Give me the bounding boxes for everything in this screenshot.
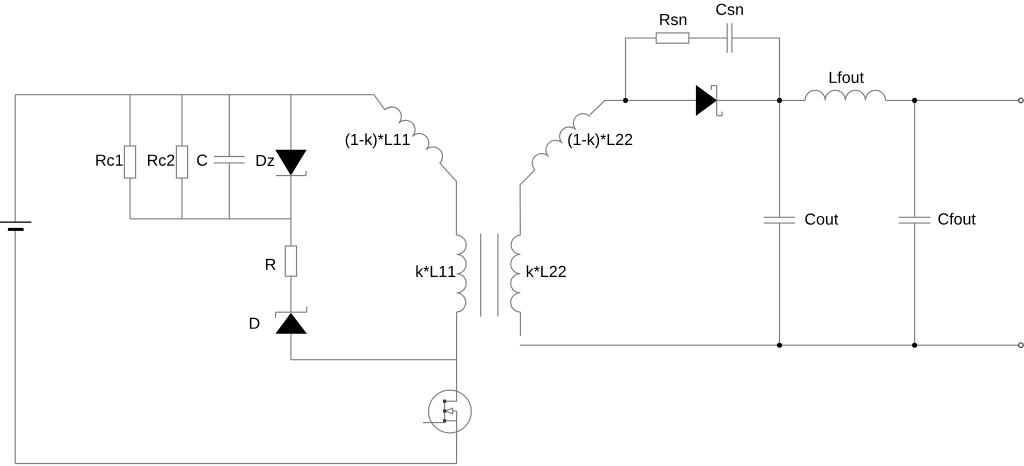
label Rc2 (148, 155, 174, 166)
wire top bus jog to primary winding (374, 95, 385, 110)
wire diode to node B (717, 99, 780, 101)
wire left rail upper (14, 95, 16, 222)
label Rc1 (96, 155, 122, 166)
wire secondary bottom tail (519, 312, 521, 336)
resistor Rsn (656, 33, 689, 43)
wire winding to node (590, 100, 626, 115)
node at Cfout bottom (912, 343, 917, 348)
mosfet Q1 gate stub (423, 422, 445, 424)
mosfet Q1 circle (429, 390, 472, 433)
label k*L22 (527, 265, 566, 277)
capacitor Cfout (899, 217, 931, 223)
label Cout (805, 213, 838, 224)
wire Dz top lead (290, 95, 292, 150)
node at Cout bottom (777, 343, 782, 348)
label Dz (257, 155, 275, 166)
wire top-left bus (15, 94, 374, 96)
label k*L11 (416, 265, 455, 277)
wire Cout bottom (779, 223, 781, 345)
label Csn (716, 4, 743, 15)
wire Rc1 top lead (129, 95, 131, 146)
wire Lfout to terminal (886, 99, 1019, 101)
terminal output minus (1019, 343, 1024, 348)
wire node to diode (626, 99, 696, 101)
wire D to drain (291, 334, 457, 360)
wire C top lead (228, 95, 230, 157)
wire Rc1 bottom lead (129, 178, 131, 219)
mosfet Q1 taps (443, 400, 446, 423)
wire secondary top tail (520, 170, 535, 236)
wire Rc2 bottom lead (181, 178, 183, 219)
resistor Rc1 (124, 146, 135, 178)
wire snubber right (732, 38, 780, 100)
wire Cfout bottom (914, 223, 916, 345)
terminal output plus (1019, 98, 1024, 103)
inductor k*L22 secondary winding (511, 235, 521, 312)
wire snubber left (626, 38, 657, 100)
wire R to D (290, 276, 292, 312)
battery V1 thick plate (8, 228, 24, 231)
wire drain rail (456, 312, 458, 391)
wire bottom-right bus (520, 344, 1019, 346)
mosfet Q1 source bend (445, 421, 457, 464)
wire node B to Lfout (780, 99, 806, 101)
wire C bottom lead (228, 163, 230, 219)
label (1-k)*L11 (346, 133, 410, 148)
wire Rsn to Csn (689, 37, 727, 39)
transformer core (481, 233, 498, 316)
wire group bottom bus (130, 218, 291, 220)
resistor Rc2 (176, 146, 187, 178)
wire Dz to R (290, 176, 292, 246)
label Cfout (938, 213, 975, 225)
zener diode Dz (275, 150, 306, 176)
label C (197, 155, 207, 166)
node at Lfout right (912, 98, 917, 103)
wire Cfout branch (914, 100, 916, 217)
capacitor Cout (764, 217, 795, 223)
mosfet Q1 body arrow (445, 408, 456, 421)
battery V1 thin plate (0, 221, 31, 223)
wire left rail lower (14, 231, 16, 464)
resistor R (285, 246, 296, 276)
inductor (1-k)*L11 winding (385, 107, 443, 163)
node at snubber right (777, 98, 782, 103)
label (1-k)*L22 (568, 133, 632, 148)
label R (266, 259, 276, 270)
inductor Lfout (805, 90, 886, 100)
label D (250, 318, 260, 329)
capacitor Csn (727, 23, 732, 53)
mosfet Q1 channel (444, 401, 446, 423)
node at snubber left (623, 98, 628, 103)
diode D (275, 307, 307, 334)
inductor (1-k)*L22 winding (532, 114, 590, 170)
schottky diode Ds (696, 85, 722, 116)
wire bottom-left bus (15, 463, 456, 465)
wire Cout branch (779, 100, 781, 217)
mosfet Q1 drain bend (445, 391, 457, 401)
label Rsn (660, 14, 686, 25)
inductor k*L11 primary winding (457, 235, 467, 312)
label Lfout (830, 71, 864, 83)
wire Rc2 top lead (181, 95, 183, 146)
wire winding tail (440, 163, 457, 235)
capacitor C (214, 157, 245, 163)
